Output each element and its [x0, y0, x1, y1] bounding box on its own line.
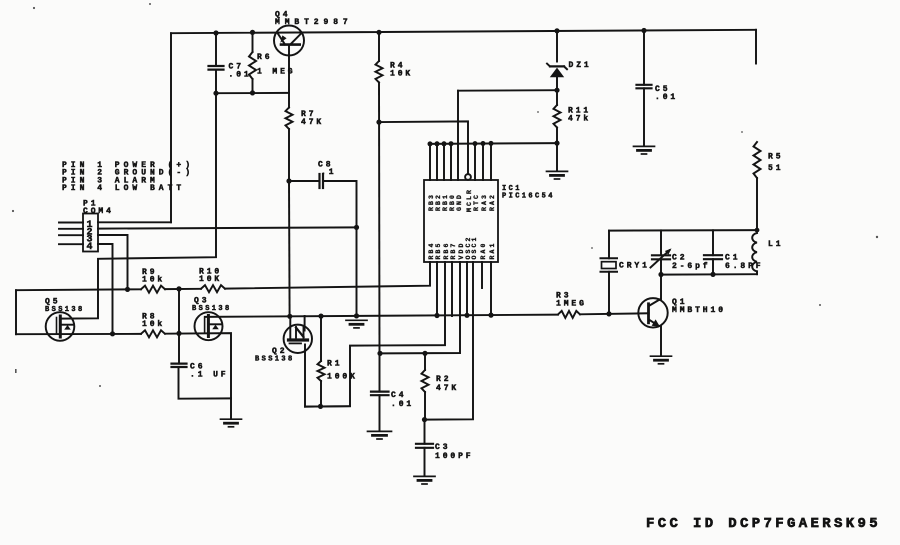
- node C2-bottom: [658, 272, 663, 277]
- resistor R5: [754, 142, 761, 178]
- svg-text:100K: 100K: [327, 373, 358, 382]
- node main-Q2drain: [287, 314, 292, 319]
- node main-gnd: [354, 313, 359, 318]
- IC1 bottom pin OSC2: [466, 262, 468, 315]
- node rail-R6: [250, 30, 255, 35]
- IC1 top pins: [429, 144, 431, 180]
- node DZ1-R11: [554, 88, 559, 93]
- mosfet Q3: [195, 312, 223, 340]
- wire Q4 base drop: [288, 45, 290, 93]
- wire top supply rail: [171, 30, 756, 33]
- resistor R10: [201, 285, 225, 292]
- wire oscillator bottom row: [661, 273, 757, 275]
- node R5-L1-top: [755, 228, 760, 233]
- svg-text:1MEG: 1MEG: [556, 300, 587, 309]
- wire R3 to Q1 base: [580, 313, 649, 314]
- svg-text:RB7: RB7: [450, 241, 457, 259]
- wire R7 to C8 node to Q2 drain: [288, 129, 290, 181]
- wire C7 down to Q5 gate: [60, 70, 216, 319]
- resistor R6: [252, 32, 254, 52]
- node main-R1: [318, 314, 323, 319]
- node main-RB5: [434, 313, 439, 318]
- transistor Q1: [638, 298, 667, 327]
- wire oscillator top row: [609, 229, 757, 232]
- resistor R7: [288, 93, 290, 108]
- wire P1 pin1 riser to rail: [170, 33, 172, 222]
- svg-text:OSC1: OSC1: [471, 235, 478, 259]
- svg-text:PIC16C54: PIC16C54: [502, 193, 555, 201]
- svg-text:RA2: RA2: [489, 193, 496, 211]
- resistor R9: [141, 286, 165, 293]
- resistor R11: [556, 90, 558, 105]
- IC1 bottom pin RA1: [490, 262, 492, 315]
- svg-text:CRY1: CRY1: [619, 262, 650, 271]
- node rail-C5: [641, 28, 646, 33]
- svg-text:.01: .01: [229, 71, 252, 80]
- svg-text:DZ1: DZ1: [569, 61, 592, 70]
- connector P1 body: [83, 214, 98, 252]
- MCLR bubble: [465, 174, 471, 180]
- node C7-row: [213, 91, 218, 96]
- svg-text:R6: R6: [257, 53, 272, 62]
- wire R8 to Q3 drain corner: [165, 333, 231, 398]
- mosfet Q2: [284, 325, 312, 353]
- transistor Q4: [274, 26, 304, 56]
- node R1-bottom: [318, 404, 323, 409]
- wire Q5 source row through Q5 R8 Q3: [16, 333, 141, 335]
- wire Q2 source to R1 bottom row: [304, 345, 306, 407]
- zener diode DZ1: [556, 31, 558, 62]
- svg-text:RA3: RA3: [481, 193, 488, 211]
- IC1 bottom pin RB7: [451, 262, 453, 316]
- node R2-top: [422, 351, 427, 356]
- wire C6 bottom row: [179, 367, 232, 399]
- IC1 bottom pin RB4 to R10 row: [225, 262, 430, 289]
- svg-text:RB0: RB0: [449, 193, 456, 211]
- svg-text:.01: .01: [655, 93, 678, 102]
- node rail-R4: [376, 30, 381, 35]
- svg-text:6.8PF: 6.8PF: [725, 262, 764, 271]
- svg-text:RB2: RB2: [435, 193, 442, 211]
- wire left loop down: [15, 290, 17, 334]
- capacitor C1: [712, 230, 714, 255]
- svg-text:1 MEG: 1 MEG: [257, 68, 296, 77]
- node bus-R11: [554, 141, 559, 146]
- svg-text:MMBTH10: MMBTH10: [672, 306, 726, 315]
- scan specks: [33, 7, 35, 9]
- wire Q1 collector: [660, 275, 662, 300]
- capacitor C3: [424, 420, 426, 444]
- wire GND pin to zener node: [458, 89, 557, 92]
- mosfet Q5: [46, 312, 75, 341]
- svg-text:47K: 47K: [436, 384, 459, 393]
- wire MCLR pull-up: [379, 121, 468, 174]
- ground under pin2 node: [346, 319, 367, 321]
- wire C8 right to ground branch: [323, 181, 357, 316]
- IC1 bottom pin RB5: [436, 262, 438, 316]
- svg-text:RB4: RB4: [428, 241, 435, 259]
- svg-text:L1: L1: [768, 240, 783, 249]
- svg-text:2-6pf: 2-6pf: [672, 262, 711, 271]
- ground under C5: [634, 145, 655, 147]
- node R9-R10: [176, 286, 181, 291]
- trimmer capacitor C2: [660, 230, 662, 255]
- capacitor C6: [178, 333, 180, 363]
- wire main row Q3 gate to R3: [205, 315, 558, 317]
- node R2-C3-OSC1: [422, 417, 427, 422]
- resistor R8: [141, 330, 165, 337]
- crystal CRY1: [608, 231, 610, 259]
- svg-text:.01: .01: [391, 400, 414, 409]
- node rail-C7: [213, 30, 218, 35]
- node main-RA1: [488, 313, 493, 318]
- wire P1 pin3 to R9: [98, 235, 128, 290]
- svg-text:RB1: RB1: [442, 193, 449, 211]
- svg-text:10K: 10K: [199, 275, 222, 284]
- wire P1 pin2 to C8 ground node: [98, 227, 357, 228]
- node pin4-R8: [110, 331, 115, 336]
- wire R6 C7 emitter row: [216, 92, 289, 94]
- node C8-left: [286, 178, 291, 183]
- ground under C4: [368, 430, 392, 432]
- capacitor C7: [215, 33, 217, 66]
- IC1 bottom pin RB6 to Q2 source row: [305, 262, 445, 407]
- IC1 bottom pin OSC1 to C3 row: [425, 262, 474, 420]
- svg-text:.1: .1: [321, 168, 336, 177]
- capacitor C8: [289, 180, 320, 182]
- node main-CRY1: [606, 311, 611, 316]
- node R8-Q3: [176, 331, 181, 336]
- svg-text:.1 UF: .1 UF: [190, 371, 229, 380]
- svg-text:MMBT2987: MMBT2987: [275, 18, 353, 27]
- wire IC top pin bus: [430, 142, 557, 145]
- svg-text:RB5: RB5: [435, 241, 442, 259]
- wire R9 to R10: [165, 288, 201, 290]
- capacitor C4: [379, 353, 381, 391]
- wire P1 pin1: [98, 221, 171, 223]
- node main-OSC2: [464, 313, 469, 318]
- wire R9-R8 tie: [178, 289, 180, 334]
- svg-text:4: 4: [87, 242, 93, 253]
- node R4-C4-VDD: [377, 351, 382, 356]
- wire Q1 emitter to ground: [660, 327, 662, 356]
- svg-text:RA0: RA0: [480, 241, 487, 259]
- svg-text:10k: 10k: [142, 276, 165, 285]
- svg-text:R1: R1: [327, 360, 342, 369]
- svg-text:FCC ID DCP7FGAERSK95: FCC ID DCP7FGAERSK95: [646, 516, 881, 532]
- inductor L1: [752, 233, 757, 271]
- node MCLR-R4: [376, 120, 381, 125]
- wire P1 pin4 to R8: [98, 244, 113, 334]
- svg-text:RB6: RB6: [443, 241, 450, 259]
- svg-text:BSS138: BSS138: [192, 305, 232, 313]
- svg-text:51: 51: [768, 164, 783, 173]
- svg-text:RA1: RA1: [489, 241, 496, 259]
- svg-text:COM4: COM4: [83, 207, 114, 216]
- wire R4 down to C4 node: [378, 83, 381, 354]
- ground under C3: [414, 475, 435, 477]
- ground under R11: [556, 143, 558, 171]
- node pin2-gnd: [354, 225, 359, 230]
- capacitor C5: [643, 31, 645, 85]
- svg-text:47K: 47K: [301, 118, 324, 127]
- ground under Q3 drain: [230, 398, 232, 418]
- svg-text:R2: R2: [436, 375, 451, 384]
- svg-text:10k: 10k: [142, 320, 165, 329]
- IC1 body: [424, 180, 498, 262]
- svg-text:R5: R5: [768, 153, 783, 162]
- svg-text:RB3: RB3: [428, 193, 435, 211]
- svg-text:47k: 47k: [568, 115, 591, 124]
- node pin3-R9: [125, 287, 130, 292]
- svg-text:GND: GND: [456, 193, 463, 211]
- node R6-row: [250, 90, 255, 95]
- resistor R1: [320, 316, 322, 361]
- resistor R3: [558, 311, 580, 318]
- svg-text:C4: C4: [391, 391, 406, 400]
- svg-text:10K: 10K: [390, 70, 413, 79]
- svg-text:100PF: 100PF: [435, 452, 474, 461]
- ground under Q1: [651, 355, 672, 357]
- svg-text:BSS138: BSS138: [255, 356, 295, 364]
- svg-text:RTC: RTC: [473, 193, 480, 211]
- svg-text:C3: C3: [435, 443, 450, 452]
- node rail-DZ1: [554, 28, 559, 33]
- resistor R4: [378, 32, 380, 61]
- IC1 bottom pin VDD to R2 row: [380, 262, 460, 353]
- svg-text:PIN 4 LOW BATT: PIN 4 LOW BATT: [62, 184, 185, 193]
- svg-text:MCLR: MCLR: [466, 188, 473, 212]
- IC1 bottom pin RA0 stub: [481, 262, 483, 288]
- resistor R2: [424, 353, 426, 370]
- svg-text:VDD: VDD: [458, 241, 465, 259]
- wire R9 R10 row: [16, 288, 141, 291]
- node C1-bottom: [710, 272, 715, 277]
- svg-text:BSS138: BSS138: [45, 306, 85, 314]
- node bus pins: [428, 141, 433, 146]
- wire right rail drop (broken scan segment): [755, 30, 757, 64]
